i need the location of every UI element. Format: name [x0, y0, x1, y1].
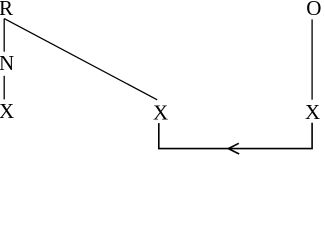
svg-text:X: X [0, 99, 14, 123]
svg-text:N: N [0, 51, 14, 75]
bond O-X3 [311, 19, 313, 99]
svg-text:O: O [306, 0, 321, 20]
svg-text:X: X [153, 101, 168, 125]
bond R-N [3, 19, 5, 52]
bond R-X2 diagonal [4, 19, 157, 100]
connector X2-X3 [159, 123, 312, 149]
bond N-X1 [3, 76, 5, 100]
svg-text:R: R [0, 0, 13, 20]
svg-text:X: X [305, 100, 320, 124]
arrowhead pointing left [228, 143, 239, 154]
